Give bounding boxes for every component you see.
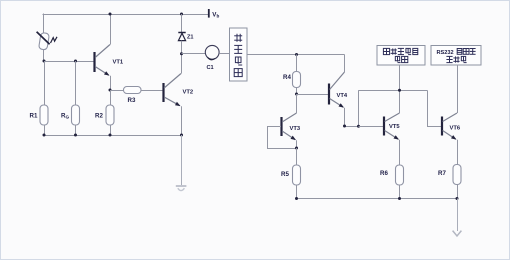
wire left branch down <box>358 90 360 126</box>
lamp C1 <box>205 45 219 59</box>
block alarm indicator box <box>377 46 425 66</box>
resistor Rg <box>72 105 80 125</box>
wire R2 bottom <box>110 125 112 135</box>
node VT4 emitter corner <box>343 125 346 128</box>
wire bottom rail right <box>297 198 458 200</box>
wire VT3 base <box>267 126 281 128</box>
wire rail to diode <box>181 14 183 33</box>
node rail Rg <box>74 134 77 137</box>
block interface box <box>431 46 481 66</box>
ground right <box>453 231 462 236</box>
wire R6 bottom lead <box>399 185 401 199</box>
svg-text:R6: R6 <box>380 170 388 177</box>
wire down to ground right <box>457 199 459 232</box>
wire right branch down <box>427 90 429 126</box>
wire top rail <box>43 14 209 16</box>
wire alarm box lead down <box>399 65 401 113</box>
svg-text:R7: R7 <box>438 170 446 177</box>
node Rg top junction <box>74 60 77 63</box>
wire R5 bottom lead <box>296 185 298 199</box>
label timer box text <box>234 34 242 42</box>
transistor VT1 <box>95 14 111 90</box>
wire bottom rail left <box>44 135 182 137</box>
svg-text:C1: C1 <box>207 65 214 71</box>
svg-text:VT1: VT1 <box>113 60 124 66</box>
wire VT3 base-emitter loop <box>268 127 297 149</box>
transistor VT4 <box>329 55 345 127</box>
node VT5 base junction <box>357 125 360 128</box>
wire lamp to box <box>219 53 229 55</box>
wire R4 top lead <box>296 55 298 72</box>
node rail R6 <box>398 197 401 200</box>
svg-text:Z1: Z1 <box>187 35 194 41</box>
wire VT4 emitter to VT5 base node <box>345 126 359 128</box>
wire R7 bottom lead <box>457 185 459 199</box>
wire R2 column <box>110 90 112 105</box>
photoresistor RL <box>37 32 57 50</box>
wire R1 bottom <box>44 125 46 135</box>
resistor R7 <box>453 165 461 185</box>
label interface box line2 <box>446 56 452 62</box>
resistor R2 <box>106 105 114 125</box>
wire VT6 base <box>427 126 442 128</box>
wire T1 base <box>44 61 94 63</box>
wire VT5 base <box>359 126 384 128</box>
label alarm box line2 <box>395 56 400 62</box>
transistor VT5 <box>384 113 400 165</box>
svg-text:Vb: Vb <box>212 12 219 19</box>
svg-text:R4: R4 <box>283 74 291 81</box>
svg-text:R3: R3 <box>128 97 136 104</box>
wire R4 bottom lead <box>296 88 298 95</box>
resistor R6 <box>396 165 404 185</box>
resistor R4 <box>293 72 301 88</box>
node VT5 collector/box <box>398 89 401 92</box>
wire down to ground <box>181 135 183 185</box>
svg-text:R1: R1 <box>30 113 38 120</box>
svg-text:RG: RG <box>61 113 69 120</box>
node rail VT2 emitter <box>180 134 183 137</box>
wire VT5 top rail <box>359 90 428 92</box>
resistor R5 <box>293 165 301 185</box>
wire R5 top lead <box>296 148 298 165</box>
ground left <box>176 186 187 191</box>
wire Rg bottom <box>75 125 77 135</box>
svg-text:VT3: VT3 <box>290 126 301 132</box>
node diode top rail <box>180 13 183 16</box>
node base wire junction left <box>43 60 46 63</box>
wire box to VT4 rail <box>247 54 345 56</box>
svg-text:VT5: VT5 <box>389 124 400 130</box>
transistor VT6 <box>442 113 458 165</box>
svg-text:VT6: VT6 <box>450 126 461 132</box>
wire below photoresistor <box>43 50 45 62</box>
svg-text:VT2: VT2 <box>183 90 194 96</box>
node diode bottom <box>180 52 183 55</box>
wire node to lamp <box>182 53 206 55</box>
label alarm box line1 <box>383 48 389 54</box>
wire R3 to VT2 base <box>141 90 163 92</box>
wire node to VT4 base <box>297 94 329 96</box>
resistor R3 <box>124 87 142 94</box>
wire Rg column <box>75 61 77 105</box>
transistor VT3 <box>282 94 297 148</box>
wire diode to node <box>181 41 183 54</box>
node VT1 collector on rail <box>109 13 112 16</box>
node rail R1 <box>43 134 46 137</box>
node rail R2 <box>109 134 112 137</box>
svg-text:RS232: RS232 <box>437 50 454 56</box>
node VT3 emitter junction <box>295 147 298 150</box>
zener diode Z1 <box>178 33 185 41</box>
wire interface box lead down <box>457 65 459 113</box>
node VT3 collector / VT4 base <box>295 93 298 96</box>
wire left column top <box>43 14 45 34</box>
wire R1 column <box>44 61 46 105</box>
transistor VT2 <box>164 54 182 135</box>
power terminal Vb <box>208 9 210 18</box>
node R4 top <box>295 53 298 56</box>
resistor R1 <box>40 105 48 125</box>
node VT1 emitter junction <box>109 89 112 92</box>
svg-text:R5: R5 <box>281 171 289 178</box>
svg-text:R2: R2 <box>95 113 103 120</box>
svg-text:VT4: VT4 <box>337 93 348 99</box>
wire emitter node to R3 <box>110 90 124 92</box>
block timer box <box>230 28 248 81</box>
node rail R7 <box>456 197 459 200</box>
node rail R5 <box>295 197 298 200</box>
